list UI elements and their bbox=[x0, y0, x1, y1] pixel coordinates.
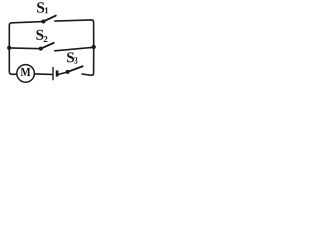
wire: right vertical lower segment + bottom-right corner bbox=[82, 47, 94, 75]
wire: middle rail left segment bbox=[9, 47, 41, 50]
label S1 letter S bbox=[37, 2, 44, 12]
node: middle rail right junction dot bbox=[92, 45, 96, 49]
node: middle rail left junction dot bbox=[7, 46, 11, 50]
label S1 subscript 1 bbox=[45, 7, 48, 13]
switch S3 blade (open) bbox=[68, 66, 83, 72]
wire: top rail left segment + left vertical + bottom-left corner bbox=[9, 22, 43, 75]
switch S1 blade (open) bbox=[43, 16, 55, 22]
wire: top rail right segment + right vertical upper bbox=[55, 20, 94, 47]
motor letter M bbox=[21, 68, 31, 76]
battery short thick plate bbox=[56, 70, 59, 76]
switch S1 pivot dot bbox=[41, 20, 45, 24]
wire: middle rail right segment bbox=[55, 47, 94, 51]
label S2 subscript 2 bbox=[44, 36, 48, 42]
battery long thin plate bbox=[52, 67, 54, 80]
label S3 subscript 3 bbox=[74, 57, 77, 64]
wire: motor to battery bbox=[34, 73, 52, 76]
switch S2 blade (open) bbox=[41, 43, 54, 49]
switch S2 pivot dot bbox=[39, 47, 43, 51]
label S2 letter S bbox=[36, 30, 43, 40]
motor M circle bbox=[17, 65, 35, 83]
wire: battery to switch S3 bbox=[59, 72, 66, 74]
switch S3 pivot dot bbox=[66, 70, 70, 74]
label S3 letter S bbox=[67, 52, 74, 62]
